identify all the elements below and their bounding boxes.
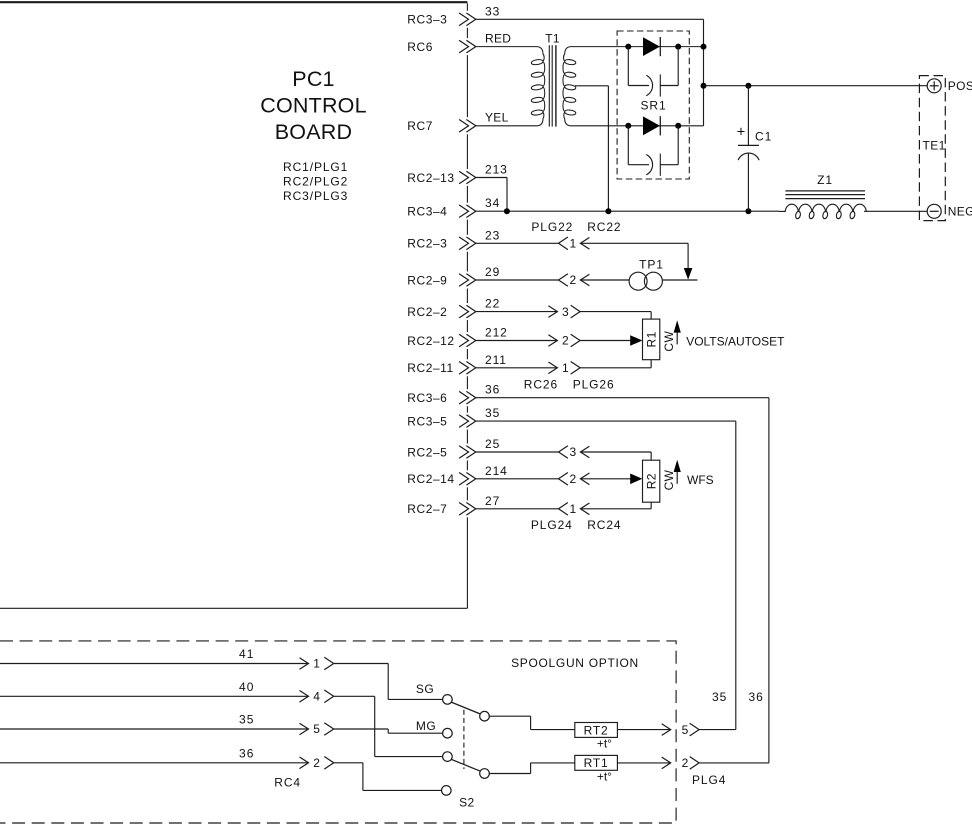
svg-text:2: 2: [569, 273, 576, 287]
svg-text:213: 213: [485, 163, 508, 177]
svg-text:RC2–12: RC2–12: [407, 334, 454, 348]
svg-text:PLG26: PLG26: [573, 377, 615, 391]
svg-text:2: 2: [569, 472, 576, 486]
svg-text:TP1: TP1: [639, 257, 664, 271]
svg-text:RED: RED: [485, 31, 511, 45]
svg-text:RC2–7: RC2–7: [407, 502, 447, 516]
svg-text:41: 41: [239, 647, 255, 661]
svg-text:3: 3: [569, 445, 576, 459]
svg-text:36: 36: [749, 690, 764, 704]
svg-text:PLG4: PLG4: [692, 773, 726, 787]
svg-text:RC3–4: RC3–4: [407, 205, 447, 219]
svg-text:BOARD: BOARD: [275, 120, 352, 144]
svg-text:T1: T1: [545, 32, 560, 46]
svg-text:R1: R1: [644, 331, 658, 347]
svg-text:25: 25: [485, 437, 500, 451]
svg-text:1: 1: [313, 657, 320, 671]
svg-text:RC3–6: RC3–6: [407, 391, 447, 405]
svg-text:1: 1: [569, 237, 576, 251]
svg-text:+t°: +t°: [597, 769, 612, 783]
svg-text:36: 36: [239, 746, 255, 760]
svg-text:Z1: Z1: [817, 173, 833, 187]
svg-text:212: 212: [485, 326, 508, 340]
svg-text:WFS: WFS: [687, 473, 714, 487]
svg-text:35: 35: [239, 713, 255, 727]
svg-text:RC1/PLG1: RC1/PLG1: [283, 160, 348, 174]
svg-text:3: 3: [562, 305, 569, 319]
svg-text:NEG: NEG: [948, 205, 972, 219]
svg-text:VOLTS/AUTOSET: VOLTS/AUTOSET: [686, 335, 785, 349]
svg-text:PC1: PC1: [292, 67, 334, 91]
svg-text:RT1: RT1: [584, 756, 609, 770]
svg-text:RC3–5: RC3–5: [407, 414, 447, 428]
svg-text:RC2–13: RC2–13: [407, 171, 454, 185]
svg-text:RC7: RC7: [407, 119, 433, 133]
svg-text:214: 214: [485, 464, 508, 478]
svg-text:RC2/PLG2: RC2/PLG2: [283, 175, 348, 189]
svg-text:MG: MG: [416, 719, 436, 733]
svg-text:RC2–11: RC2–11: [407, 361, 453, 375]
svg-text:211: 211: [485, 353, 507, 367]
svg-text:+t°: +t°: [597, 737, 612, 751]
svg-text:RC2–14: RC2–14: [407, 472, 454, 486]
svg-text:2: 2: [682, 756, 689, 770]
svg-text:RC22: RC22: [587, 220, 621, 234]
svg-text:RT2: RT2: [584, 723, 609, 737]
svg-text:POS: POS: [948, 79, 972, 93]
svg-text:1: 1: [569, 502, 576, 516]
svg-text:RC24: RC24: [587, 518, 621, 532]
svg-text:SR1: SR1: [640, 99, 666, 113]
svg-text:4: 4: [313, 690, 320, 704]
svg-text:40: 40: [239, 680, 255, 694]
svg-text:RC3/PLG3: RC3/PLG3: [283, 189, 348, 203]
svg-text:CONTROL: CONTROL: [260, 94, 367, 118]
svg-text:35: 35: [712, 690, 727, 704]
svg-text:35: 35: [485, 406, 500, 420]
svg-text:23: 23: [485, 228, 500, 242]
svg-text:PLG24: PLG24: [531, 518, 573, 532]
svg-text:RC2–5: RC2–5: [407, 445, 447, 459]
svg-text:RC26: RC26: [524, 377, 558, 391]
svg-text:R2: R2: [644, 473, 658, 489]
svg-text:YEL: YEL: [485, 111, 509, 125]
svg-text:S2: S2: [459, 795, 474, 809]
svg-text:RC2–9: RC2–9: [407, 273, 447, 287]
svg-text:SG: SG: [416, 682, 434, 696]
svg-text:+: +: [737, 125, 745, 141]
svg-text:22: 22: [485, 297, 500, 311]
svg-text:33: 33: [485, 4, 500, 18]
svg-text:5: 5: [682, 723, 689, 737]
svg-text:1: 1: [562, 361, 569, 375]
svg-text:PLG22: PLG22: [531, 220, 573, 234]
svg-text:34: 34: [485, 196, 500, 210]
svg-text:RC2–3: RC2–3: [407, 237, 447, 251]
svg-text:CW: CW: [662, 331, 676, 352]
svg-text:5: 5: [313, 722, 320, 736]
svg-text:RC2–2: RC2–2: [407, 305, 447, 319]
svg-text:27: 27: [485, 494, 500, 508]
svg-text:RC3–3: RC3–3: [407, 13, 447, 27]
svg-text:CW: CW: [662, 469, 676, 490]
svg-text:2: 2: [562, 334, 569, 348]
svg-text:2: 2: [313, 756, 320, 770]
svg-text:29: 29: [485, 265, 500, 279]
svg-text:TE1: TE1: [923, 139, 946, 153]
svg-text:RC6: RC6: [407, 40, 433, 54]
svg-text:36: 36: [485, 383, 500, 397]
svg-text:C1: C1: [755, 130, 772, 144]
svg-text:SPOOLGUN OPTION: SPOOLGUN OPTION: [511, 656, 639, 670]
svg-text:RC4: RC4: [274, 775, 301, 789]
